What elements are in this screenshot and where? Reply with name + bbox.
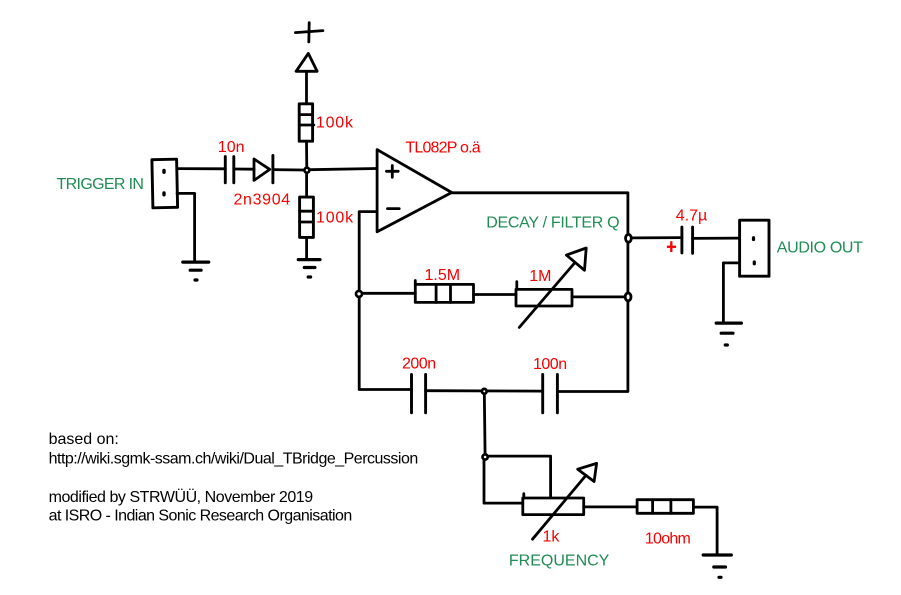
capacitor C1 10n <box>225 157 234 183</box>
wire mid node down to freq node <box>483 391 487 456</box>
ground bottom right <box>703 555 731 577</box>
capacitor C4 4.7u <box>682 227 693 253</box>
svg-text:1.5M: 1.5M <box>425 267 461 284</box>
wire R1 to node A <box>305 141 308 170</box>
label plus polarity <box>667 241 676 252</box>
wire op-amp minus input feedback down <box>359 212 411 390</box>
wire trigger connector to ground <box>177 193 195 261</box>
svg-text:DECAY / FILTER Q: DECAY / FILTER Q <box>486 215 619 232</box>
power supply triangle <box>296 53 317 71</box>
svg-text:200n: 200n <box>402 356 436 373</box>
wire node B to R3 <box>362 292 415 295</box>
svg-text:100k: 100k <box>316 115 354 132</box>
svg-text:TRIGGER IN: TRIGGER IN <box>57 176 144 193</box>
resistor R1 100k top <box>299 104 314 141</box>
potentiometer P2 1k <box>523 463 597 539</box>
ground under trigger <box>183 262 209 280</box>
svg-text:100n: 100n <box>533 356 567 373</box>
node output tap ring <box>626 234 632 242</box>
wire trigger to C1 <box>177 167 225 170</box>
wire left branch to pot <box>484 457 523 503</box>
svg-text:10ohm: 10ohm <box>645 531 691 548</box>
wire caps row 200n to 100n <box>426 389 543 392</box>
svg-text:100k: 100k <box>316 210 354 227</box>
wire node A to op-amp plus input <box>310 169 377 170</box>
potentiometer P1 1M <box>516 248 586 327</box>
svg-text:FREQUENCY: FREQUENCY <box>509 553 610 570</box>
resistor R3 1.5M <box>415 281 473 303</box>
wire audio connector to ground <box>723 263 739 323</box>
wire R4 to ground <box>693 507 717 554</box>
wire R2 to ground <box>305 237 308 259</box>
svg-text:TL082P o.ä: TL082P o.ä <box>405 139 480 156</box>
svg-text:10n: 10n <box>218 139 245 156</box>
wire C1 to D1 <box>234 168 254 171</box>
power supply plus symbol <box>295 23 323 42</box>
node feedback left ring <box>356 291 362 297</box>
connector AUDIO OUT <box>740 220 769 276</box>
ground under R2 <box>298 260 320 277</box>
op-amp U1 <box>377 150 452 232</box>
svg-text:http://wiki.sgmk-ssam.ch/wiki/: http://wiki.sgmk-ssam.ch/wiki/Dual_TBrid… <box>49 451 418 468</box>
svg-text:1k: 1k <box>543 529 561 546</box>
svg-text:based on:: based on: <box>49 431 119 448</box>
node feedback right ring <box>625 293 631 301</box>
svg-text:modified by STRWÜÜ, November 2: modified by STRWÜÜ, November 2019 <box>49 488 314 506</box>
node A junction ring <box>304 168 309 173</box>
wire C4 to audio connector <box>693 237 740 240</box>
capacitor C3 100n <box>543 375 558 413</box>
svg-text:at ISRO - Indian Sonic Researc: at ISRO - Indian Sonic Research Organisa… <box>49 507 352 524</box>
diode D1 2n3904 <box>254 155 273 182</box>
wire wiper branch <box>485 456 550 497</box>
wire node A to R2 <box>305 173 308 197</box>
wire D1 to node A <box>273 168 303 171</box>
svg-text:AUDIO OUT: AUDIO OUT <box>777 239 863 256</box>
node freq tap ring <box>483 454 488 459</box>
wire P1 to node D <box>572 295 625 298</box>
wire pot to R4 <box>584 505 637 508</box>
svg-text:4.7µ: 4.7µ <box>676 207 707 224</box>
resistor R4 10ohm <box>637 500 693 514</box>
wire supply to R1 <box>305 71 308 104</box>
resistor R2 100k bottom <box>300 197 314 237</box>
capacitor C2 200n <box>412 375 426 413</box>
ground under audio <box>716 323 741 345</box>
wire R3 to P1 <box>474 293 517 296</box>
wire op-amp output to right rail and down to caps row <box>452 193 628 392</box>
node caps mid ring <box>482 389 487 394</box>
wire audio branch <box>630 236 682 239</box>
connector TRIGGER IN <box>152 159 178 208</box>
svg-text:2n3904: 2n3904 <box>234 191 291 208</box>
svg-text:1M: 1M <box>529 268 551 285</box>
